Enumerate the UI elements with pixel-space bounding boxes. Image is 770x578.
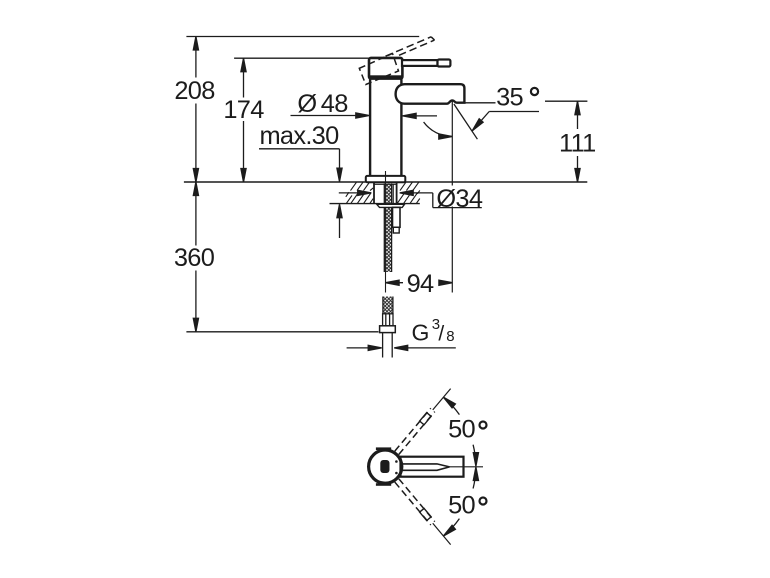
counter bottom line: [330, 203, 420, 205]
centerline: [385, 171, 387, 293]
dimension 208: [174, 37, 215, 183]
reference line 111 top: [465, 102, 496, 104]
ghost handle cap dashed: [359, 54, 398, 85]
hose collar: [383, 314, 393, 326]
dimension 111: [559, 101, 596, 182]
joint band: [368, 75, 403, 78]
hose nut: [380, 326, 396, 333]
top view screw dots: [395, 460, 398, 463]
svg-text:208: 208: [174, 77, 215, 105]
counter hatching right: [397, 182, 419, 203]
mounting stud: [393, 207, 401, 233]
svg-text:94: 94: [407, 270, 434, 298]
G3/8 pipe: [383, 333, 393, 358]
angle arc upper 50: [442, 395, 479, 466]
handle cap: [369, 58, 402, 79]
reference line lever top: [234, 57, 369, 59]
outlet vertical reference line: [451, 101, 453, 293]
ghost lever top view +50: [395, 387, 453, 455]
angle arc lower 50: [442, 467, 479, 538]
svg-text:174: 174: [223, 96, 264, 124]
svg-text:max.30: max.30: [259, 122, 339, 150]
dimension 360: [174, 182, 215, 332]
svg-text:50: 50: [448, 416, 475, 444]
dimension 35 degrees: [470, 84, 539, 133]
dimension diameter 48: [291, 90, 438, 119]
top view keyhole: [380, 460, 389, 473]
dimension 94: [386, 270, 453, 298]
dimension diameter 34: [339, 185, 483, 213]
washer: [377, 204, 405, 207]
svg-text:/: /: [438, 323, 444, 346]
35 degree slanted line: [454, 104, 478, 139]
flexible hose upper: [384, 184, 391, 273]
top reference line: [186, 36, 419, 38]
counter top line: [184, 181, 587, 183]
spout: [396, 84, 465, 104]
svg-text:Ø 48: Ø 48: [297, 90, 348, 118]
base plate: [366, 176, 406, 182]
dimension max.30: [259, 122, 342, 238]
top view circle: [369, 450, 402, 483]
ghost lever dashed: [386, 37, 435, 56]
svg-text:G: G: [412, 320, 429, 346]
flexible hose lower: [383, 297, 393, 314]
dimension 174: [223, 58, 264, 182]
top view lever: [401, 457, 464, 477]
mounting shank in counter hole: [374, 182, 397, 203]
svg-text:8: 8: [446, 328, 454, 345]
svg-text:111: 111: [559, 130, 596, 158]
35 degree arc: [424, 122, 453, 139]
top view lever slot: [401, 464, 450, 470]
counter hatching left: [346, 182, 373, 203]
svg-text:Ø34: Ø34: [436, 185, 482, 213]
svg-text:50: 50: [448, 492, 475, 520]
dimension G 3/8: [347, 316, 456, 351]
lever: [402, 60, 450, 67]
svg-text:360: 360: [174, 244, 215, 272]
top view centerline: [450, 466, 484, 468]
faucet body: [370, 78, 401, 176]
ghost lever top view -50: [395, 479, 453, 547]
svg-text:35: 35: [496, 84, 523, 112]
bottom reference line: [186, 331, 378, 333]
top view flats: [376, 447, 391, 450]
